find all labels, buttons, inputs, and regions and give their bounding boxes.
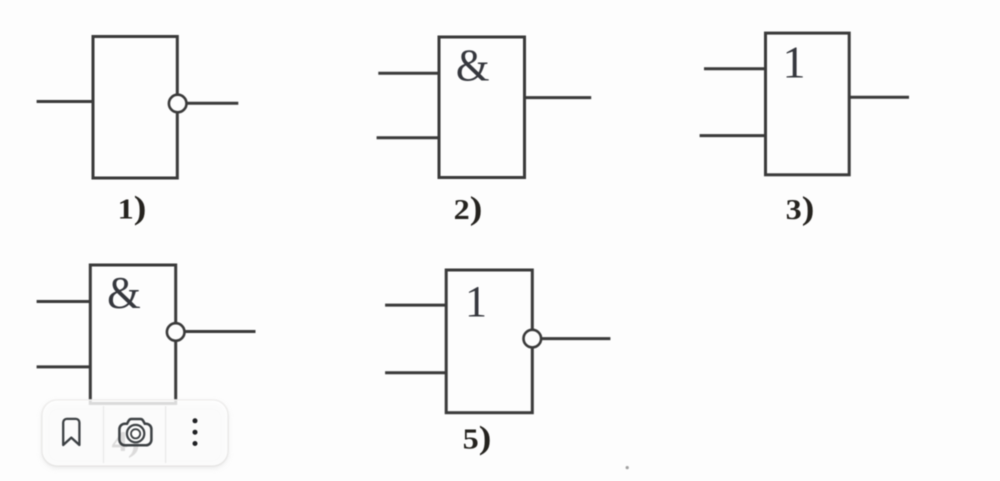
svg-text:5): 5): [463, 419, 492, 456]
wire input A gate 5: [385, 304, 446, 307]
toolbar shadow: [42, 400, 228, 466]
menu dots icon: [193, 418, 198, 446]
toolbar background: [43, 401, 228, 466]
wire output gate 5: [541, 337, 610, 340]
svg-text:1: 1: [465, 277, 487, 326]
wire input A gate 4: [37, 300, 91, 303]
gate 2 body: [439, 37, 525, 178]
wire output gate 1: [187, 102, 239, 105]
stray dot artifact: [626, 466, 629, 469]
inverter bubble gate 1: [169, 95, 187, 113]
wire input B gate 5: [385, 371, 446, 374]
svg-text:1): 1): [118, 189, 147, 226]
svg-text:2): 2): [454, 189, 483, 226]
wire output gate 4: [185, 330, 256, 333]
camera search icon: [119, 419, 151, 445]
gate 1 body: [93, 37, 177, 179]
wire output gate 2: [525, 96, 592, 99]
inverter bubble gate 5: [524, 330, 542, 348]
wire input B gate 4: [37, 365, 91, 368]
wire output gate 3: [849, 96, 909, 99]
wire input gate 1: [37, 100, 93, 103]
gate 5 body: [446, 270, 532, 413]
svg-text:&: &: [456, 39, 490, 91]
gate 3 body: [766, 33, 850, 175]
svg-text:&: &: [107, 267, 141, 319]
toolbar separator 1: [103, 406, 105, 463]
svg-text:1: 1: [783, 37, 806, 88]
toolbar pill overlay: [42, 400, 228, 466]
inverter bubble gate 4: [167, 323, 185, 341]
wire input A gate 2: [378, 72, 439, 75]
svg-text:3): 3): [786, 189, 815, 226]
wire input B gate 3: [700, 134, 766, 137]
wire input A gate 3: [704, 67, 766, 70]
gate 4 body: [90, 265, 175, 404]
toolbar separator 2: [165, 406, 167, 463]
bookmark icon: [63, 419, 79, 445]
wire input B gate 2: [377, 136, 439, 139]
